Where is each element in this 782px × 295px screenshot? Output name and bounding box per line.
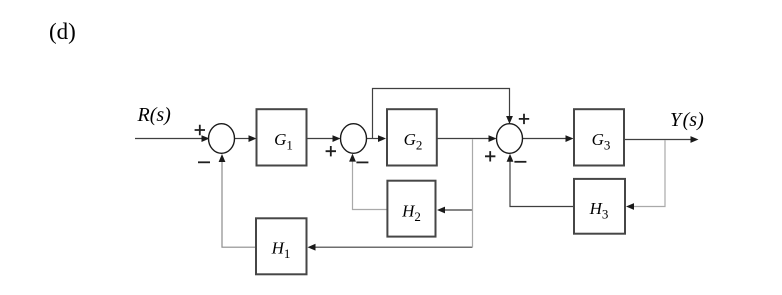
svg-text:(d): (d) — [49, 19, 76, 44]
svg-text:Y(s): Y(s) — [670, 109, 704, 131]
svg-text:R(s): R(s) — [137, 104, 172, 126]
